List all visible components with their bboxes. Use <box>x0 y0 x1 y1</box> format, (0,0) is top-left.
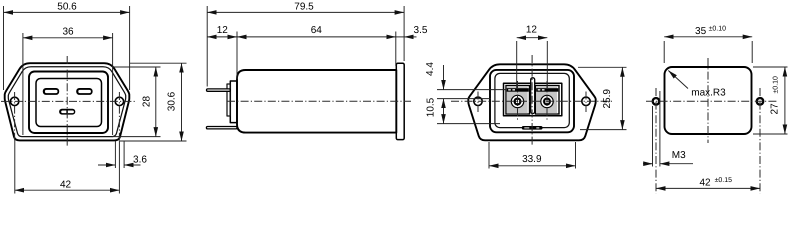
hole centerline left (to 42 dim) <box>14 92 16 140</box>
ear hole centerline right <box>585 92 587 113</box>
screw centerline left <box>517 81 519 121</box>
svg-text:42: 42 <box>699 178 711 189</box>
svg-text:33.9: 33.9 <box>522 154 542 165</box>
end cap step large <box>230 81 237 123</box>
centerline horizontal view3 <box>451 100 613 102</box>
divider rib <box>531 78 535 114</box>
hole centerline right <box>759 88 761 194</box>
centerline vertical view4 <box>707 58 709 143</box>
dim M3 <box>652 106 654 167</box>
svg-text:M3: M3 <box>672 150 686 161</box>
rear recess inner <box>495 73 569 127</box>
svg-text:42: 42 <box>60 179 72 190</box>
svg-text:12: 12 <box>526 24 538 35</box>
label slot <box>522 126 543 130</box>
terminal pin upper <box>207 89 231 91</box>
contact slot upper-left <box>43 88 59 95</box>
terminal clamp left <box>507 88 529 92</box>
rear flange outer outline <box>468 64 595 140</box>
dim 10.5 <box>437 98 491 100</box>
M3 hole right <box>757 98 764 105</box>
mounting flange side view <box>396 63 404 139</box>
centerline vertical view3 <box>531 55 533 146</box>
dim 64 (body length) <box>395 32 397 67</box>
dim 4.4 <box>437 89 507 91</box>
svg-text:25.9: 25.9 <box>602 89 613 109</box>
screw left <box>511 95 523 107</box>
svg-text:4.4: 4.4 <box>425 62 436 76</box>
dim 36 <box>22 33 24 135</box>
mounting hole right <box>115 97 123 105</box>
contact slot bottom (earth) <box>59 109 75 115</box>
centerline horizontal view4 <box>646 100 778 102</box>
cut-out rounded rectangle <box>665 67 752 134</box>
dim 25.9 <box>578 66 627 68</box>
hole centerline left <box>655 88 657 194</box>
centerline horizontal view1 <box>1 100 136 102</box>
contact slot upper-right <box>76 88 92 95</box>
ear hole centerline left <box>477 92 479 113</box>
dim 33.9 <box>488 142 490 169</box>
screw centerline right <box>546 81 548 121</box>
mounting hole left <box>10 97 18 105</box>
svg-text:±0.10: ±0.10 <box>709 26 727 33</box>
recess opening <box>36 79 102 127</box>
screw right <box>541 95 553 107</box>
dim 50.6 <box>3 6 5 90</box>
dim 42 panel <box>656 187 760 189</box>
terminal pin lower <box>206 127 237 129</box>
svg-text:3.6: 3.6 <box>133 155 147 166</box>
svg-text:64: 64 <box>311 25 323 36</box>
centerline view2 <box>227 100 411 102</box>
svg-text:36: 36 <box>62 27 74 38</box>
terminal block outer <box>504 83 562 116</box>
svg-text:±0.15: ±0.15 <box>715 177 733 184</box>
rear mounting hole left <box>474 97 482 105</box>
svg-text:±0.10: ±0.10 <box>772 76 779 94</box>
body cylinder <box>237 70 396 133</box>
flange inner offset line <box>8 67 125 137</box>
dim 35 <box>663 41 665 63</box>
dim 27 <box>753 66 788 68</box>
svg-text:79.5: 79.5 <box>294 2 314 13</box>
flange outer outline <box>5 63 130 140</box>
dim 12 (pin length) <box>236 32 238 80</box>
dim 28 <box>112 66 161 68</box>
svg-text:50.6: 50.6 <box>57 2 77 13</box>
dim 12 (terminal spacing) <box>516 41 518 88</box>
dim 30.6 <box>130 62 187 64</box>
svg-text:30.6: 30.6 <box>167 91 178 111</box>
svg-text:28: 28 <box>142 96 153 108</box>
svg-text:12: 12 <box>217 25 229 36</box>
M3 hole left <box>653 98 660 105</box>
dim 42 <box>15 189 120 191</box>
svg-text:max.R3: max.R3 <box>691 88 726 99</box>
hole centerline right (to 42 dim) <box>118 92 120 141</box>
face plate <box>29 72 108 134</box>
svg-text:35: 35 <box>695 26 707 37</box>
terminal cell left <box>506 86 530 115</box>
end cap step small <box>227 84 230 116</box>
dim 3.5 (flange) <box>396 36 404 38</box>
dim 79.5 <box>206 6 208 87</box>
svg-text:10.5: 10.5 <box>425 97 436 117</box>
terminal clamp right <box>536 88 558 92</box>
terminal cell right <box>536 86 560 115</box>
rear mounting hole right <box>582 97 590 105</box>
dim 3.6 <box>114 141 116 168</box>
rear recess outer <box>490 70 574 132</box>
centerline vertical view1 <box>66 56 68 147</box>
svg-text:27: 27 <box>769 103 780 115</box>
svg-text:3.5: 3.5 <box>414 25 428 36</box>
leader max.R3 <box>668 71 688 89</box>
